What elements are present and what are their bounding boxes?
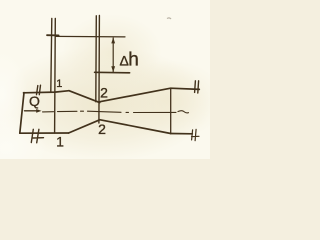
- section line 1-1 with left tube right wall: [54, 19, 57, 134]
- arrowhead of flow arrow: [36, 109, 41, 113]
- svg-text:Q: Q: [29, 93, 40, 109]
- flange mark top right outlet: [195, 81, 199, 93]
- svg-text:2: 2: [98, 121, 106, 137]
- arrowhead of delta-h dimension bottom: [111, 66, 115, 72]
- paper speck top right: [167, 18, 171, 19]
- outlet right vertical line: [170, 88, 172, 133]
- svg-text:1: 1: [56, 78, 62, 90]
- left piezometer tube left wall: [51, 19, 52, 93]
- paper background: [0, 0, 210, 159]
- svg-text:h: h: [128, 50, 139, 71]
- section line 2-2 with right tube right wall: [98, 16, 101, 124]
- converging cone bottom edge: [69, 120, 100, 133]
- flange mark top of inlet: [37, 85, 41, 95]
- venturi body top edge inlet: [24, 91, 70, 93]
- venturi body bottom edge inlet: [20, 132, 69, 134]
- svg-text:1: 1: [56, 133, 64, 149]
- upper reference line: [55, 35, 125, 38]
- venturi body left edge: [20, 93, 24, 134]
- flow arrow under Q: [25, 110, 38, 112]
- left tube liquid level tick: [47, 34, 59, 36]
- right piezometer tube left wall: [95, 16, 98, 102]
- dimension line for delta-h: [112, 38, 114, 72]
- svg-text:2: 2: [100, 84, 108, 100]
- flange mark bottom right outlet: [192, 129, 200, 140]
- flange mark bottom of inlet: [31, 129, 43, 143]
- lower reference line: [95, 71, 130, 74]
- centre axis end hook: [178, 111, 189, 113]
- centre axis line: [43, 111, 177, 112]
- diverging cone top edge: [100, 88, 199, 102]
- converging cone top edge: [69, 91, 100, 103]
- diverging cone bottom edge: [100, 120, 171, 134]
- arrowhead of delta-h dimension top: [111, 37, 115, 43]
- outlet bottom edge: [171, 133, 193, 135]
